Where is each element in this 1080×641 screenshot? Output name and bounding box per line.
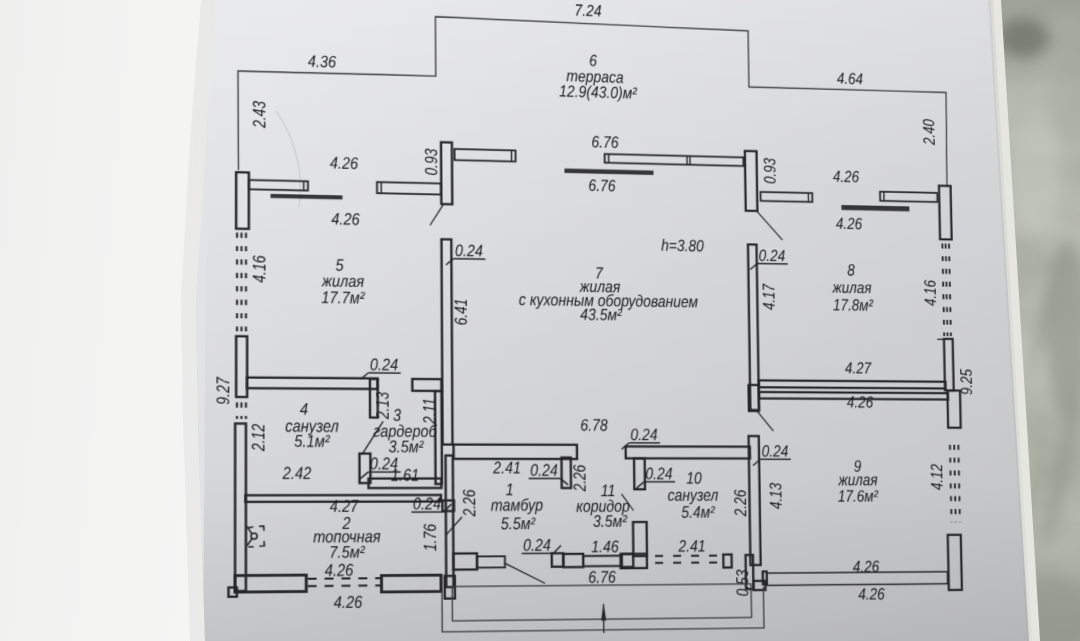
door leaf entrance	[505, 563, 545, 584]
svg-text:2.43: 2.43	[250, 101, 270, 129]
window end cap	[608, 154, 610, 163]
svg-text:0.24: 0.24	[413, 495, 441, 514]
wall jamb koridor south-west	[552, 553, 564, 566]
svg-text:3.5м²: 3.5м²	[593, 512, 628, 531]
svg-text:4.64: 4.64	[837, 70, 863, 89]
window room5 right (4.26)	[377, 182, 441, 195]
window dark sash room7 (6.76)	[565, 169, 653, 175]
wall koridor south segment 2	[622, 554, 634, 567]
svg-text:2.13: 2.13	[374, 392, 393, 420]
wall step block at divider bottom	[749, 385, 759, 411]
svg-text:санузел: санузел	[668, 486, 719, 505]
svg-text:0.24: 0.24	[370, 356, 398, 375]
wall left exterior lower	[235, 424, 246, 592]
wire leader koridor 11	[622, 494, 634, 511]
svg-text:0.24: 0.24	[759, 247, 786, 266]
svg-text:2.26: 2.26	[731, 489, 750, 517]
wire leader pillar P2	[430, 205, 443, 226]
wall left pillar middle	[236, 336, 247, 397]
window mullion	[686, 156, 688, 165]
svg-text:0.24: 0.24	[370, 455, 398, 474]
wire tick 9.25 dimension	[937, 338, 944, 340]
window dark sash room8	[842, 205, 909, 210]
svg-text:4.17: 4.17	[760, 283, 779, 310]
wall porch jamb right	[753, 581, 765, 590]
svg-text:17.6м²: 17.6м²	[838, 487, 879, 505]
svg-text:6.76: 6.76	[591, 133, 618, 152]
window tambur south small	[477, 556, 505, 567]
svg-text:2.26: 2.26	[571, 464, 590, 492]
wire leader from divider bottom	[757, 411, 773, 431]
wall pillar P3 (0.93)	[745, 151, 758, 211]
svg-text:2.40: 2.40	[920, 118, 938, 145]
wall garderob south (1.61)	[369, 478, 442, 488]
node entrance arrow	[603, 604, 605, 633]
svg-text:4.26: 4.26	[330, 154, 358, 173]
wall sill tambur south	[453, 553, 477, 569]
window room9 south (4.26)	[767, 572, 948, 586]
wall room9 west (4.13)	[749, 436, 761, 565]
wall san10 west lower	[633, 522, 647, 556]
svg-text:тамбур: тамбур	[491, 496, 543, 515]
wall jamb tambur west	[442, 500, 454, 511]
svg-text:h=3.80: h=3.80	[661, 237, 704, 256]
svg-text:4.26: 4.26	[847, 393, 874, 411]
door leaf garderob	[362, 421, 383, 454]
wall koridor west leg (2.26)	[561, 457, 571, 488]
svg-text:2.42: 2.42	[282, 464, 312, 483]
wall dashed section left (2.12 vent)	[236, 402, 238, 419]
wall tambur west (1.76/2.26)	[446, 455, 454, 587]
svg-text:0.24: 0.24	[455, 242, 483, 261]
svg-text:0.24: 0.24	[523, 536, 551, 555]
svg-text:6.41: 6.41	[452, 298, 471, 325]
svg-text:0.24: 0.24	[762, 442, 789, 460]
svg-text:2.41: 2.41	[677, 537, 705, 556]
window koridor south (1.46)	[583, 556, 621, 566]
wall room5-room7 divider (6.41)	[441, 239, 452, 444]
svg-text:6.78: 6.78	[580, 416, 608, 435]
svg-text:2.26: 2.26	[460, 489, 479, 518]
wall room5-san4 divider	[247, 377, 378, 389]
wall garderob north	[412, 379, 441, 391]
wall bottom-left corner step	[229, 587, 237, 596]
svg-text:0.24: 0.24	[645, 465, 672, 484]
wall jamb 2.13	[370, 379, 378, 418]
wire leader 2.26	[446, 517, 462, 535]
svg-text:5.5м²: 5.5м²	[501, 515, 536, 534]
svg-text:2.12: 2.12	[249, 424, 269, 452]
svg-text:4.16: 4.16	[921, 279, 939, 306]
wall room8 south (4.27)	[759, 380, 946, 388]
svg-text:17.8м²: 17.8м²	[833, 296, 874, 315]
svg-text:0.24: 0.24	[630, 426, 657, 445]
wall dashed section right (4.16)	[942, 243, 944, 336]
svg-text:9.27: 9.27	[214, 377, 234, 405]
svg-text:0.93: 0.93	[422, 149, 441, 176]
wall porch jamb left	[445, 576, 455, 599]
svg-text:2.41: 2.41	[492, 459, 521, 478]
wall bottom slab right of dashed opening	[381, 575, 441, 592]
svg-text:жилая: жилая	[831, 279, 871, 298]
svg-text:43.5м²: 43.5м²	[580, 306, 622, 325]
wire terrace boundary thin outline	[238, 10, 948, 187]
svg-text:7.24: 7.24	[574, 1, 601, 20]
wall dashed section right (4.12)	[950, 445, 952, 523]
svg-text:1.46: 1.46	[591, 538, 619, 557]
wire porch outer outline	[442, 587, 764, 632]
svg-text:1.76: 1.76	[421, 523, 440, 551]
wall pillar P2 (0.93)	[441, 142, 452, 204]
svg-text:10: 10	[686, 469, 702, 488]
wall sill koridor east	[621, 554, 647, 568]
opening dashed bottom topochnaya (4.26)	[308, 577, 381, 580]
svg-text:0.24: 0.24	[530, 461, 558, 480]
wall left pillar upper (room5 window jamb)	[236, 172, 249, 229]
svg-text:4.16: 4.16	[250, 255, 270, 283]
decor faint arc	[276, 111, 301, 208]
window room8 top-right (4.26)	[880, 192, 937, 202]
svg-text:4.26: 4.26	[858, 585, 885, 604]
wall jamb san10 south-east	[723, 554, 731, 567]
svg-text:7.5м²: 7.5м²	[329, 543, 365, 562]
svg-text:4.26: 4.26	[331, 210, 359, 229]
svg-text:5.4м²: 5.4м²	[681, 503, 715, 522]
svg-text:6.76: 6.76	[588, 568, 616, 587]
svg-text:12.9(43.0)м²: 12.9(43.0)м²	[559, 82, 637, 103]
wall san10 west leg	[634, 458, 645, 489]
window mullion 2	[689, 156, 691, 165]
wall tambur north (2.41)	[454, 445, 578, 459]
svg-text:4.27: 4.27	[845, 359, 872, 377]
wall bottom-left slab	[235, 575, 306, 592]
wall dashed section left (4.16)	[236, 233, 238, 332]
wall right segment above 8/9 wall	[944, 339, 954, 391]
wall 0.53 segment	[746, 555, 754, 589]
svg-text:4.13: 4.13	[767, 483, 786, 509]
wire leader pillar P3	[757, 211, 783, 240]
svg-text:4.12: 4.12	[928, 464, 946, 490]
svg-text:2.11: 2.11	[420, 398, 439, 425]
svg-text:9.25: 9.25	[957, 368, 975, 395]
wall pillar bottom-right corner	[948, 535, 962, 590]
wall room7-room8 divider (4.17)	[748, 244, 759, 410]
wall pillar P4 top-right corner	[939, 186, 952, 240]
svg-text:4.26: 4.26	[833, 168, 859, 187]
opening dashed san10 south (2.41)	[655, 555, 722, 557]
wall garderob east (2.11)	[435, 391, 442, 484]
wall koridor south segment	[563, 554, 583, 567]
wire porch inner outline	[452, 584, 751, 621]
window room7 top long (6.76)	[605, 154, 744, 166]
svg-text:8: 8	[847, 261, 855, 279]
svg-text:4.26: 4.26	[853, 558, 880, 577]
wall room9 north (4.26)	[759, 392, 948, 399]
vent symbol topochnaya	[247, 526, 265, 547]
wall jamb room9 window left	[763, 572, 767, 585]
wall topochnaya north (4.27)	[245, 495, 441, 502]
svg-text:17.7м²: 17.7м²	[321, 288, 365, 307]
wall right segment below 8/9 wall	[947, 391, 960, 428]
window room7 top-left (6.76 part)	[454, 149, 515, 162]
window room5 left (4.26)	[249, 180, 308, 191]
svg-text:4.26: 4.26	[325, 561, 354, 580]
svg-text:0.93: 0.93	[761, 158, 780, 184]
svg-text:6.76: 6.76	[588, 177, 615, 196]
window dark sash room5	[271, 194, 342, 199]
window room8 top-left stub (4.26)	[761, 192, 813, 202]
svg-text:0.53: 0.53	[733, 570, 752, 597]
svg-text:4.26: 4.26	[836, 215, 862, 234]
svg-text:5.1м²: 5.1м²	[294, 432, 330, 451]
svg-text:4.36: 4.36	[308, 52, 336, 71]
svg-text:4.26: 4.26	[334, 593, 363, 612]
wall jamb garderob door	[359, 454, 370, 484]
wall san10 north (0.24)	[626, 446, 750, 458]
